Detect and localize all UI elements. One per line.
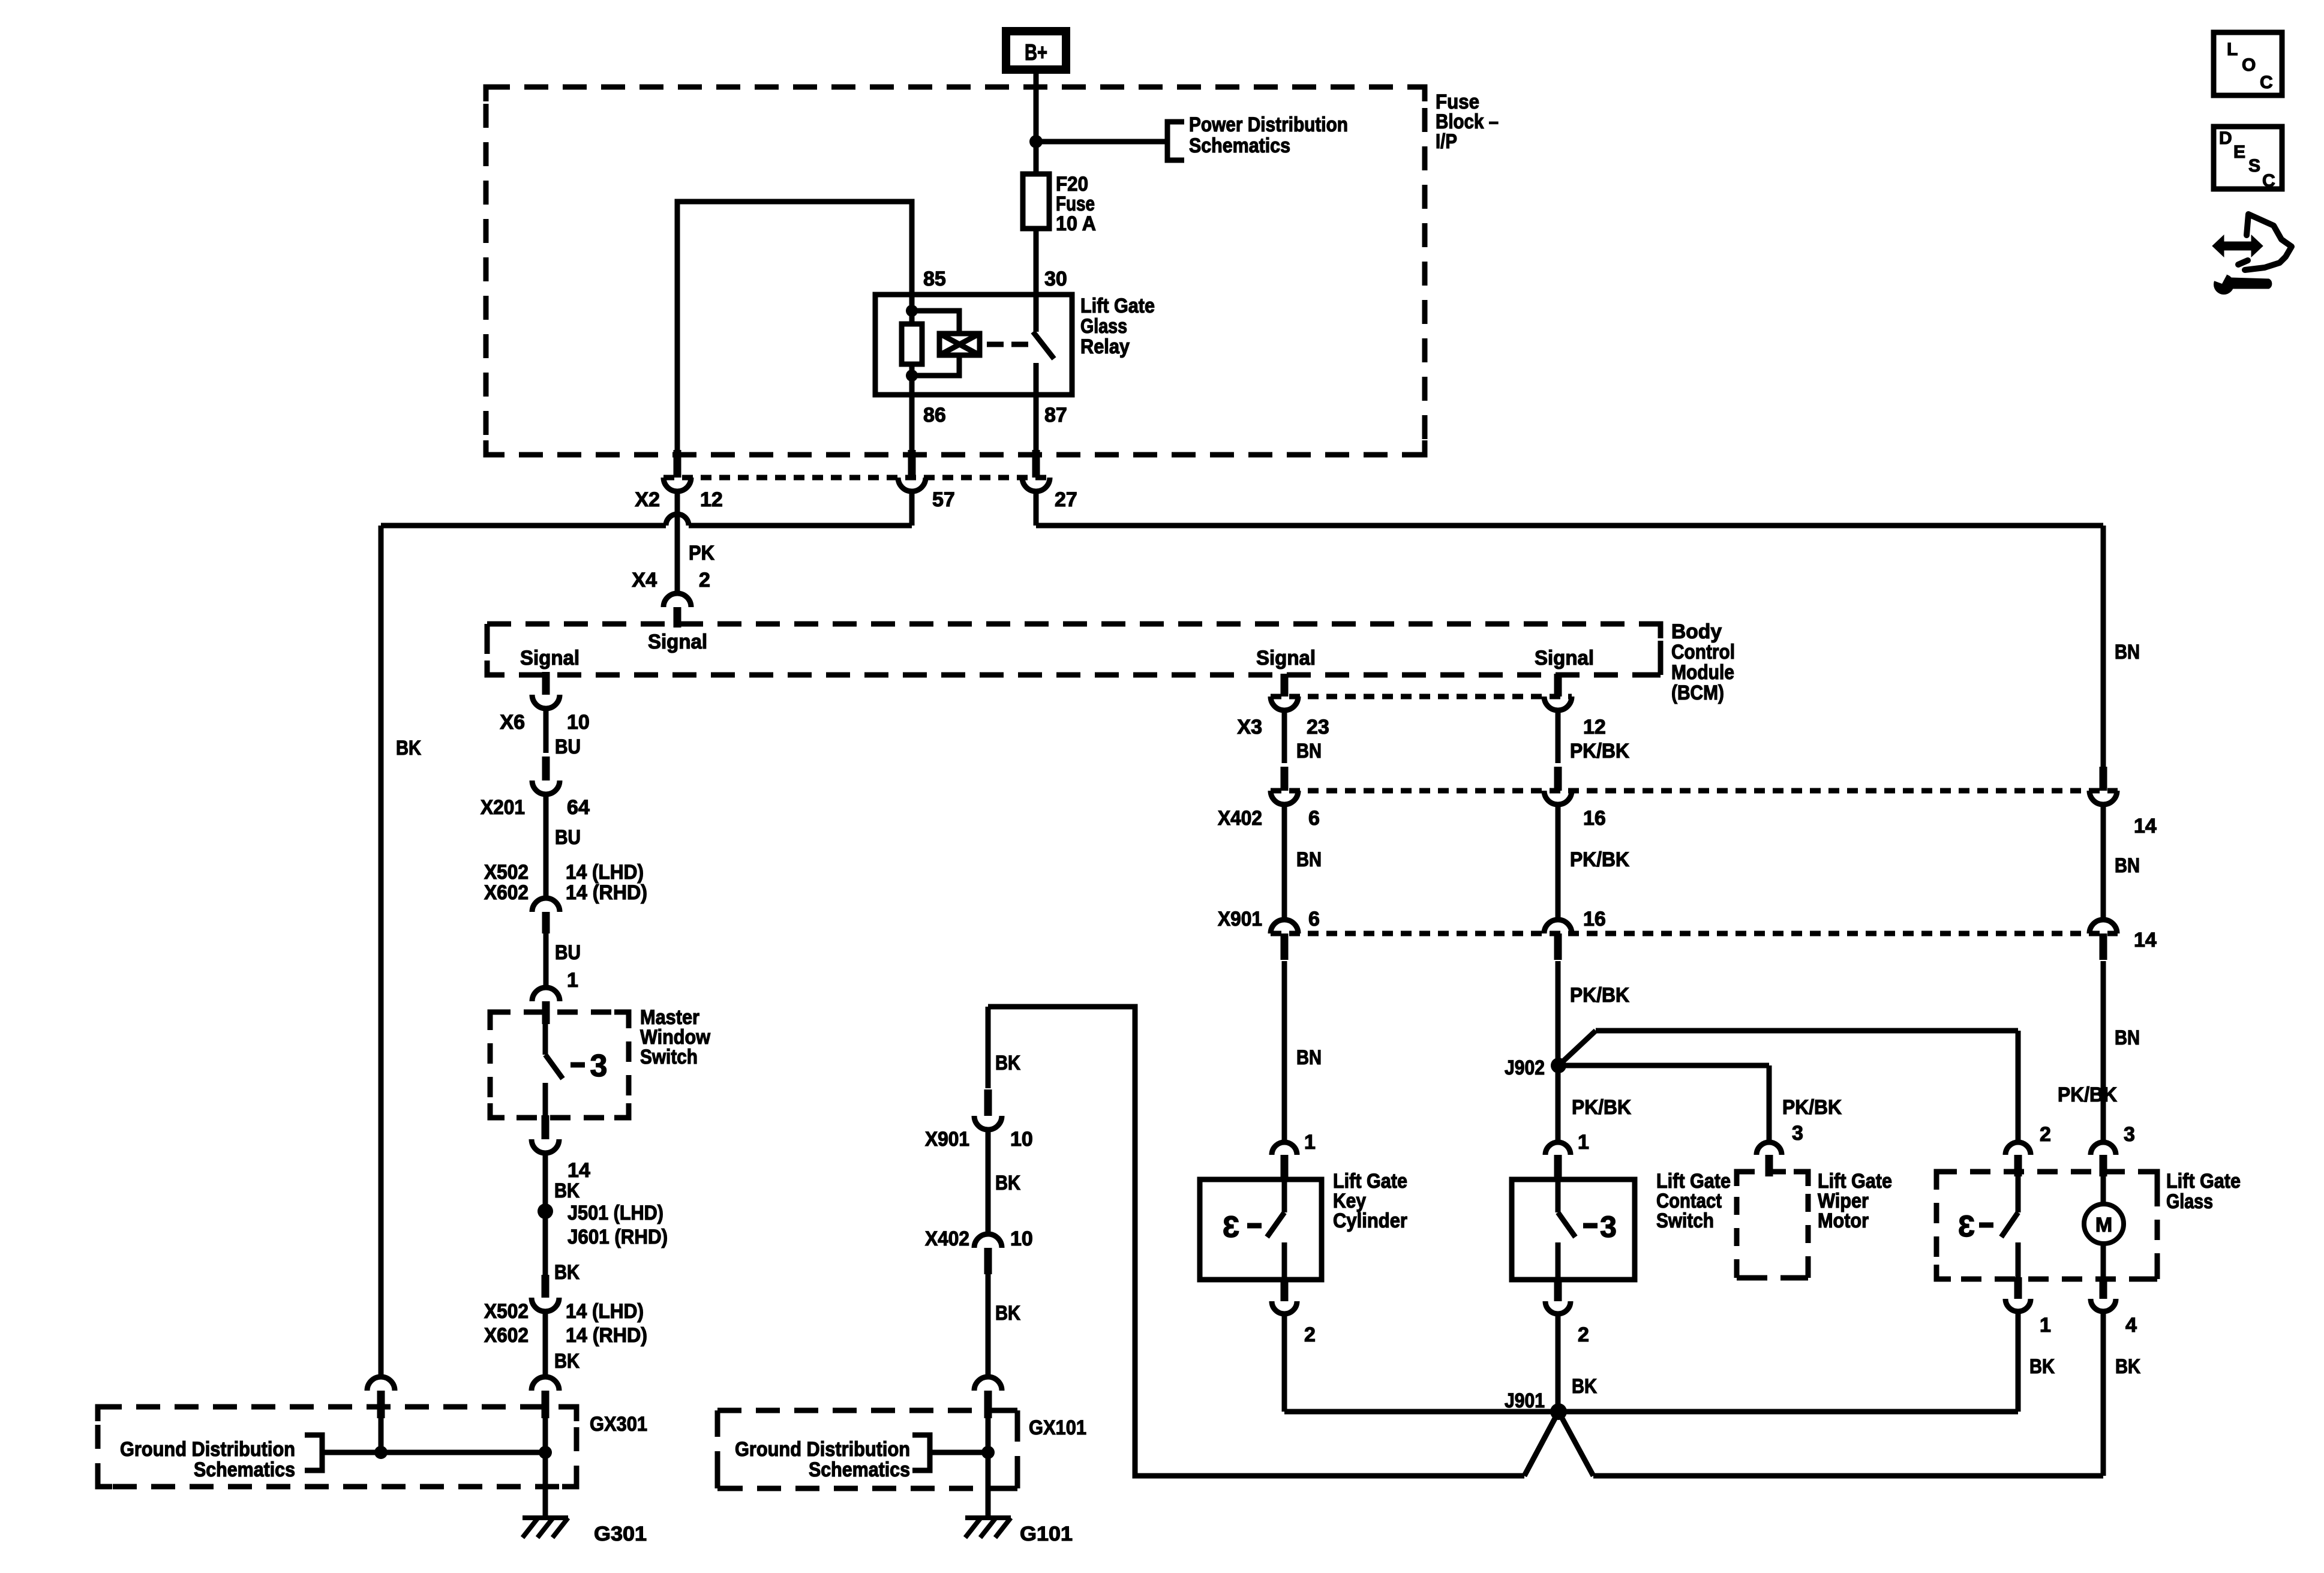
svg-text:J902: J902 [1505, 1056, 1545, 1079]
svg-text:PK/BK: PK/BK [1782, 1096, 1842, 1119]
svg-text:Lift Gate: Lift Gate [2166, 1170, 2241, 1193]
svg-text:BK: BK [1572, 1375, 1597, 1398]
svg-text:87: 87 [1044, 404, 1067, 427]
svg-text:L: L [2227, 40, 2238, 59]
svg-text:I/P: I/P [1436, 130, 1457, 153]
svg-text:10: 10 [567, 711, 590, 734]
svg-text:Power Distribution: Power Distribution [1189, 113, 1348, 136]
svg-text:G301: G301 [594, 1523, 647, 1545]
svg-text:BK: BK [396, 737, 421, 760]
svg-text:X602: X602 [484, 881, 529, 904]
svg-text:Motor: Motor [1818, 1209, 1869, 1232]
svg-text:X602: X602 [484, 1324, 529, 1347]
svg-text:14: 14 [2134, 929, 2157, 951]
svg-text:2: 2 [1304, 1323, 1316, 1346]
svg-text:X402: X402 [925, 1227, 969, 1250]
svg-text:2: 2 [2040, 1123, 2051, 1146]
svg-text:Signal: Signal [648, 631, 707, 653]
svg-text:PK/BK: PK/BK [1570, 848, 1629, 871]
svg-text:J901: J901 [1505, 1389, 1545, 1412]
svg-text:BK: BK [2115, 1355, 2140, 1378]
svg-text:3: 3 [1792, 1122, 1803, 1145]
svg-text:BN: BN [1296, 740, 1322, 763]
svg-text:14 (RHD): 14 (RHD) [566, 1324, 647, 1347]
svg-text:BN: BN [2115, 641, 2140, 664]
svg-text:Body: Body [1671, 620, 1722, 643]
svg-text:12: 12 [700, 488, 723, 511]
svg-text:BK: BK [995, 1302, 1020, 1325]
svg-text:B+: B+ [1025, 40, 1047, 65]
svg-text:64: 64 [567, 796, 590, 819]
svg-text:X2: X2 [635, 488, 660, 511]
svg-text:G101: G101 [1020, 1523, 1073, 1545]
svg-text:BK: BK [554, 1261, 580, 1284]
svg-text:PK: PK [689, 542, 714, 565]
svg-text:14: 14 [2134, 815, 2157, 837]
svg-text:6: 6 [1308, 908, 1320, 930]
svg-text:S: S [2248, 156, 2260, 176]
svg-text:BK: BK [995, 1052, 1020, 1074]
svg-text:C: C [2260, 73, 2273, 92]
svg-text:1: 1 [1578, 1131, 1589, 1154]
svg-text:(BCM): (BCM) [1671, 682, 1724, 704]
svg-text:Module: Module [1671, 661, 1734, 684]
svg-text:4: 4 [2125, 1314, 2137, 1337]
svg-text:GX101: GX101 [1029, 1416, 1086, 1439]
svg-text:PK/BK: PK/BK [1572, 1096, 1631, 1119]
svg-text:X901: X901 [925, 1128, 969, 1151]
svg-text:BU: BU [555, 736, 581, 758]
svg-text:Relay: Relay [1080, 335, 1130, 358]
svg-text:BN: BN [1296, 848, 1322, 871]
svg-text:X201: X201 [481, 796, 525, 819]
svg-text:16: 16 [1583, 807, 1606, 830]
svg-text:14 (RHD): 14 (RHD) [566, 881, 647, 904]
svg-text:D: D [2219, 128, 2232, 148]
svg-text:86: 86 [923, 404, 946, 427]
svg-text:1: 1 [567, 969, 578, 992]
svg-text:J601 (RHD): J601 (RHD) [568, 1226, 668, 1248]
svg-text:14 (LHD): 14 (LHD) [566, 1300, 644, 1323]
svg-text:PK/BK: PK/BK [1570, 984, 1629, 1007]
svg-text:X402: X402 [1218, 807, 1262, 830]
svg-text:X6: X6 [500, 711, 525, 734]
svg-text:3: 3 [1600, 1210, 1617, 1244]
svg-text:Signal: Signal [1256, 647, 1316, 670]
svg-text:6: 6 [1308, 807, 1320, 830]
svg-text:BK: BK [554, 1350, 580, 1373]
svg-text:Cylinder: Cylinder [1333, 1209, 1407, 1232]
svg-text:BU: BU [555, 826, 581, 849]
svg-text:BK: BK [554, 1179, 580, 1202]
svg-text:Ground Distribution: Ground Distribution [735, 1438, 910, 1461]
svg-text:Schematics: Schematics [1189, 134, 1290, 157]
svg-text:Signal: Signal [520, 647, 580, 670]
svg-text:BU: BU [555, 941, 581, 964]
svg-text:10 A: 10 A [1056, 212, 1096, 235]
svg-text:Switch: Switch [640, 1046, 698, 1068]
svg-text:X3: X3 [1237, 716, 1262, 739]
svg-text:1: 1 [2040, 1314, 2051, 1337]
svg-text:23: 23 [1307, 716, 1329, 739]
svg-text:3: 3 [590, 1049, 608, 1083]
svg-text:O: O [2242, 55, 2256, 75]
svg-text:27: 27 [1055, 488, 1077, 511]
svg-text:Glass: Glass [2166, 1190, 2213, 1213]
svg-text:85: 85 [923, 268, 946, 290]
svg-text:Control: Control [1671, 641, 1735, 664]
svg-text:BN: BN [2115, 1026, 2140, 1049]
svg-text:X4: X4 [632, 569, 657, 592]
svg-text:BK: BK [995, 1172, 1020, 1194]
svg-text:3: 3 [1958, 1209, 1975, 1243]
svg-text:BN: BN [2115, 854, 2140, 877]
svg-text:57: 57 [932, 488, 955, 511]
svg-text:3: 3 [1223, 1210, 1239, 1244]
svg-text:14 (LHD): 14 (LHD) [566, 861, 644, 884]
svg-text:Schematics: Schematics [194, 1458, 295, 1481]
svg-text:Ground Distribution: Ground Distribution [120, 1438, 295, 1461]
svg-text:X901: X901 [1218, 908, 1262, 930]
svg-text:1: 1 [1304, 1131, 1316, 1154]
svg-text:PK/BK: PK/BK [2058, 1083, 2117, 1106]
svg-text:14: 14 [568, 1159, 590, 1182]
svg-text:10: 10 [1010, 1227, 1033, 1250]
svg-text:M: M [2095, 1214, 2112, 1236]
svg-text:X502: X502 [484, 1300, 529, 1323]
svg-text:X502: X502 [484, 861, 529, 884]
svg-text:10: 10 [1010, 1128, 1033, 1151]
svg-text:GX301: GX301 [590, 1413, 647, 1436]
svg-text:Signal: Signal [1535, 647, 1594, 670]
svg-text:Lift Gate: Lift Gate [1080, 295, 1155, 317]
svg-text:BN: BN [1296, 1046, 1322, 1069]
svg-text:3: 3 [2124, 1123, 2135, 1146]
svg-text:PK/BK: PK/BK [1570, 740, 1629, 763]
svg-text:30: 30 [1044, 268, 1067, 290]
svg-text:Glass: Glass [1080, 315, 1127, 338]
svg-text:BK: BK [2029, 1355, 2055, 1378]
svg-text:12: 12 [1583, 716, 1606, 739]
svg-text:2: 2 [699, 569, 710, 592]
svg-text:E: E [2233, 142, 2245, 162]
svg-text:2: 2 [1578, 1323, 1589, 1346]
svg-text:16: 16 [1583, 908, 1606, 930]
svg-text:Switch: Switch [1656, 1209, 1714, 1232]
svg-text:J501 (LHD): J501 (LHD) [568, 1202, 663, 1224]
svg-text:C: C [2262, 171, 2275, 191]
svg-text:Schematics: Schematics [809, 1458, 910, 1481]
